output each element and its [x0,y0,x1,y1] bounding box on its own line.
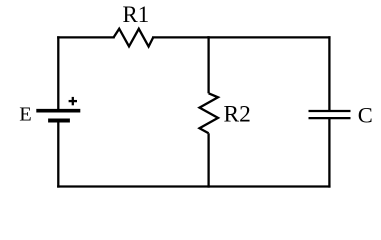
svg-text:R2: R2 [224,101,251,127]
wire left upper [57,37,59,110]
wire top-right segment [153,36,329,38]
label R1 [123,2,150,27]
label R2 [224,101,251,127]
wire right lower [328,118,330,186]
wire middle branch lower [207,133,209,186]
wire middle branch upper [207,37,209,93]
node bottom junction [207,185,209,187]
capacitor C top plate [309,110,351,112]
svg-text:C: C [358,103,373,128]
svg-text:R1: R1 [123,2,150,27]
label E [19,104,31,126]
svg-text:E: E [19,104,31,126]
wire left lower [57,121,59,187]
node top junction [207,36,209,38]
wire top-left segment [58,36,113,38]
battery E positive plate [36,109,80,113]
wire right upper [328,37,330,110]
battery E negative plate [48,119,70,123]
resistor R2 [200,93,219,133]
wire bottom [58,185,329,187]
label C [358,103,373,128]
capacitor C bottom plate [309,117,351,119]
battery plus sign [69,97,77,105]
resistor R1 [114,29,154,47]
